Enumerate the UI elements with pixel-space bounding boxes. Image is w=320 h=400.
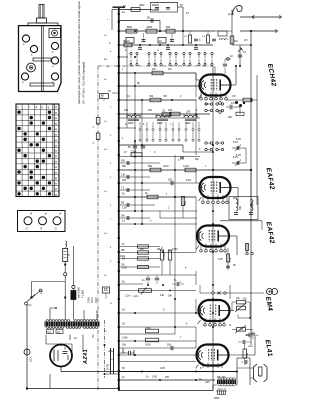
oscillator feed wire [119, 109, 210, 116]
EM4 socket pins [204, 318, 226, 326]
svg-text:700: 700 [163, 95, 168, 98]
svg-text:4V: 4V [74, 337, 77, 340]
svg-text:127V: 127V [90, 297, 94, 303]
tube V5 EL41 envelope [196, 345, 229, 369]
wave band switch contacts [119, 45, 213, 66]
svg-text:min 6,5kΩ: min 6,5kΩ [78, 287, 81, 298]
svg-text:5-25: 5-25 [236, 138, 241, 141]
EAF42 grid coupling [119, 179, 200, 186]
capacitor 50 row [119, 17, 160, 32]
svg-text:S: S [68, 253, 70, 257]
resistor 40 top row [119, 5, 152, 11]
svg-text:5-25: 5-25 [233, 157, 238, 159]
EM4 target and grid resistors 1M [119, 297, 251, 319]
transformer primary leads [50, 302, 97, 320]
IF trimmer capacitors [232, 142, 246, 166]
chassis slots [30, 58, 54, 86]
svg-text:3000: 3000 [127, 26, 133, 29]
svg-text:1,2m: 1,2m [125, 295, 130, 298]
tube designation EL41 [264, 339, 274, 357]
svg-text:0,25: 0,25 [218, 258, 223, 261]
EM4 divider resistors [119, 327, 196, 347]
oscillator coils L1 L2 L3 [119, 114, 200, 125]
svg-text:2000: 2000 [139, 4, 145, 7]
AZ41 filament and cathode wiring [46, 344, 119, 372]
svg-text:AZ41: AZ41 [83, 349, 89, 365]
cathode resistor 700 wire [119, 95, 196, 102]
svg-text:1M: 1M [236, 297, 239, 300]
svg-text:5-25: 5-25 [236, 154, 241, 157]
svg-text:5n: 5n [93, 142, 95, 144]
antenna trimmer capacitor [238, 45, 247, 67]
svg-text:0,3M: 0,3M [172, 248, 177, 251]
EAF42 cathode wire [119, 192, 196, 199]
speaker wires [213, 358, 250, 391]
chassis boundary lower dash-dot [104, 320, 106, 378]
svg-text:2M: 2M [121, 203, 124, 205]
voltage tap labels [78, 287, 110, 303]
wire junction dots [134, 30, 252, 381]
mains on-off switch S2 [25, 282, 66, 305]
EAF42 second socket pins [200, 236, 237, 255]
svg-text:1,2m: 1,2m [133, 295, 138, 298]
svg-text:1M: 1M [243, 298, 246, 301]
svg-text:GV - 477 kHz - 70,2 MHz afgere: GV - 477 kHz - 70,2 MHz afgeregeld [82, 61, 86, 104]
rectifier tube V6 AZ41 envelope and electrodes [50, 344, 72, 367]
tone capacitors [119, 275, 196, 286]
svg-text:0,65: 0,65 [205, 382, 210, 384]
svg-text:230: 230 [148, 109, 153, 112]
interstage vertical wires [127, 31, 251, 348]
bus stub wire [112, 10, 119, 31]
aerial input with arrows [228, 5, 282, 345]
detector grid wiring [119, 210, 197, 218]
mains filter capacitor block 2x20000 [151, 3, 184, 32]
svg-text:~: ~ [23, 105, 25, 109]
svg-text:150: 150 [165, 376, 170, 379]
chassis boundary dash-dot line [98, 66, 213, 390]
chassis tube socket holes [21, 35, 58, 83]
band switch contact table grid [16, 104, 59, 197]
rear connection panel with three sockets [18, 211, 66, 232]
svg-text:700: 700 [149, 95, 154, 98]
bus bypass capacitor [119, 350, 134, 357]
chassis top view mounting plate with tuning shaft [19, 5, 62, 92]
svg-text:410: 410 [41, 289, 44, 294]
svg-text:5n: 5n [93, 126, 95, 128]
svg-text:0,05: 0,05 [152, 376, 157, 379]
svg-text:1M: 1M [234, 40, 237, 43]
svg-text:5-25: 5-25 [233, 142, 238, 144]
power transformer T1 [45, 320, 100, 334]
svg-text:20000: 20000 [152, 9, 160, 12]
padder resistor [162, 111, 171, 117]
svg-text:100: 100 [122, 179, 127, 182]
svg-text:100: 100 [168, 179, 173, 182]
gramophone pick-up input jacks [200, 285, 278, 301]
tube V2 EAF42 envelope [199, 177, 231, 201]
screen feed vertical wire [212, 66, 214, 390]
ECH42 grid wire [119, 73, 200, 86]
svg-text:1M: 1M [168, 68, 171, 71]
svg-text:(4): (4) [57, 332, 60, 334]
svg-text:4 x 5kΩ: 4 x 5kΩ [82, 290, 85, 298]
svg-text:5000: 5000 [248, 346, 254, 348]
AVC decoupling network [219, 58, 257, 205]
fuse F2 0,1A in ground lead [24, 305, 33, 388]
svg-text:0,1M: 0,1M [163, 165, 168, 168]
svg-text:0,05: 0,05 [160, 367, 165, 370]
EAF42 first socket pins [202, 188, 238, 206]
ECH42 socket pins [200, 65, 237, 100]
svg-text:0,3M: 0,3M [145, 327, 150, 330]
volume potentiometer [119, 284, 196, 298]
IF transformer IF2 [220, 197, 262, 231]
chassis trimmer holes [27, 29, 61, 72]
component value annotations [101, 4, 251, 379]
svg-text:150: 150 [246, 352, 249, 357]
AVC distribution wire [119, 165, 252, 172]
band switch contact table dots and row labels [17, 105, 58, 196]
dropper network second row [126, 31, 227, 43]
screen resistor 30k [181, 197, 187, 206]
svg-text:0,3M: 0,3M [122, 337, 127, 340]
svg-text:0,05: 0,05 [122, 267, 127, 270]
svg-text:220V: 220V [87, 297, 91, 303]
tube designation EM4 [264, 296, 273, 312]
EAF42 second anode network [226, 243, 253, 270]
svg-text:ant: ant [228, 13, 232, 16]
svg-text:100: 100 [124, 109, 129, 112]
svg-text:Spanningen gem. (resp.) gemete: Spanningen gem. (resp.) gemeten met inst… [77, 1, 81, 104]
svg-text:1M: 1M [152, 68, 155, 71]
EL41 grid coupling capacitor [119, 344, 196, 362]
tube V1 ECH42 envelope [199, 75, 231, 99]
AF divider resistors [160, 247, 171, 276]
dial lamp feed wire [119, 40, 213, 47]
ground return wire [26, 374, 213, 391]
tube designation EAF42 first [265, 167, 276, 190]
tube designation ECH42 [266, 63, 277, 87]
grid leak wire to ECH42 [119, 68, 196, 75]
caption text line 2 [82, 61, 86, 104]
svg-text:0,1A: 0,1A [29, 356, 33, 362]
svg-text:500: 500 [166, 26, 171, 29]
svg-text:0,1M: 0,1M [183, 165, 189, 168]
svg-text:t: t [29, 105, 30, 109]
EM4 cathode trimmer network [229, 325, 259, 348]
output transformer T2 [199, 377, 236, 392]
svg-text:20000: 20000 [152, 4, 160, 7]
svg-text:2000: 2000 [147, 26, 153, 29]
svg-text:50μ: 50μ [195, 159, 200, 161]
svg-text:50+50: 50+50 [108, 363, 110, 370]
filter electrolytic capacitors 50+50uF [105, 348, 119, 374]
tracking capacitors [128, 141, 145, 155]
svg-text:0,1M: 0,1M [145, 344, 150, 347]
svg-text:27+4: 27+4 [131, 151, 137, 154]
EL41 cathode and heater wiring [119, 363, 237, 381]
svg-text:100: 100 [168, 109, 173, 112]
coil tap terminals [139, 122, 200, 141]
detector load resistors [119, 244, 196, 269]
EL41 aux wires [119, 341, 197, 355]
svg-text:2000: 2000 [128, 122, 134, 125]
EL41 anode tone capacitor [229, 333, 256, 355]
fuse F1 in mains lead [63, 241, 70, 302]
resistor 10 left of bus [100, 93, 119, 101]
caption text line 1 [77, 1, 81, 104]
speaker field magnet [214, 391, 227, 400]
svg-text:0,25M: 0,25M [164, 253, 166, 259]
svg-text:1,5k: 1,5k [122, 207, 127, 210]
svg-text:230: 230 [186, 111, 191, 114]
voltage selector contact [71, 246, 76, 302]
svg-text:600-700: 600-700 [217, 377, 226, 379]
tube V4 EM4 envelope [198, 300, 230, 324]
detector cathode wire [119, 223, 197, 225]
band switch second deck contacts [119, 103, 224, 162]
antenna resistor network [215, 10, 252, 47]
voltage dropper resistors row [119, 26, 215, 33]
svg-text:110V: 110V [94, 297, 98, 303]
decoupling capacitors near bus [119, 161, 160, 221]
tube designation AZ41 [83, 349, 89, 365]
svg-text:2M: 2M [140, 248, 143, 251]
svg-text:5-25: 5-25 [186, 179, 191, 182]
feed-through capacitors on screen [93, 118, 100, 145]
svg-text:465: 465 [239, 205, 242, 210]
svg-text:m: m [157, 49, 159, 52]
svg-text:465: 465 [233, 197, 238, 200]
tube designation EAF42 second [265, 221, 276, 244]
EL41 screen resistor [243, 341, 249, 365]
transformer secondary leads [46, 335, 93, 345]
main HT/ground bus wire [113, 7, 126, 391]
tube V3 EAF42 second envelope [196, 226, 229, 250]
loudspeaker connector LS1 [250, 364, 267, 382]
